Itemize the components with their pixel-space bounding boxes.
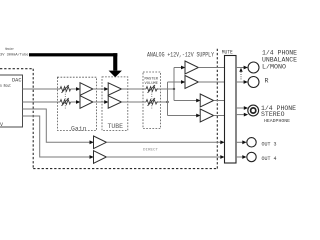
MUTE switch block [225, 56, 237, 164]
jack OUT 3 [247, 138, 256, 147]
op-amp out4 [196, 114, 200, 118]
svg-text:ANALOG +12V,-12V SUPPLY: ANALOG +12V,-12V SUPPLY [147, 51, 214, 58]
wire gain R to tube [93, 101, 105, 103]
op-amp out3 [196, 99, 200, 103]
resistor VCA R [60, 98, 71, 106]
wire buffer2 to mute [106, 156, 220, 158]
gang dotted line master volume [151, 92, 153, 109]
svg-text:R: R [265, 78, 269, 85]
op-amp gain L [76, 87, 80, 91]
svg-text:VOLUME: VOLUME [145, 82, 159, 86]
svg-text:1/4 PHONE: 1/4 PHONE [262, 50, 297, 57]
op-amp gain R [76, 100, 80, 104]
svg-text:Heater: Heater [5, 47, 14, 52]
jack OUT 4 [247, 152, 256, 161]
heater label text [0, 47, 29, 57]
wire master L to node [158, 88, 174, 90]
wire DAC direct R [23, 116, 90, 157]
wire amp3 to mute [214, 100, 225, 102]
svg-text:3V 300mA/Tube: 3V 300mA/Tube [0, 52, 29, 57]
Gain block dashed box [57, 77, 96, 130]
wire tube L to master volume [122, 88, 147, 90]
wire to amp3 [174, 100, 197, 102]
jack L/MONO [248, 62, 259, 73]
node L junction [173, 88, 175, 90]
mono link dotted arrow [240, 72, 242, 81]
wire amp4 to mute [214, 115, 225, 117]
wire mute to out4 [236, 156, 243, 158]
wire mute to L jack [236, 67, 244, 69]
potentiometer master R [146, 98, 158, 106]
op-amp direct buffer 2 [90, 155, 94, 159]
svg-text:TUBE: TUBE [108, 123, 124, 130]
wire amp2 to mute [198, 81, 224, 83]
out labels [262, 141, 277, 162]
svg-text:n Rout: n Rout [0, 83, 11, 89]
DAC U1 [0, 75, 23, 127]
gang dotted line gain [64, 92, 66, 109]
heater supply thick wire [29, 53, 122, 77]
wire to amp4 [168, 115, 197, 117]
headphone labels [261, 105, 296, 124]
svg-text:DIRECT: DIRECT [143, 149, 159, 153]
svg-text:STEREO: STEREO [261, 111, 285, 118]
wire [71, 88, 77, 90]
wire [71, 101, 77, 103]
wire DAC Lch out [23, 88, 61, 90]
MASTER VOLUME dashed box [143, 72, 161, 129]
wire mute to headphone lower [236, 114, 244, 116]
svg-text:V: V [0, 122, 3, 128]
enclosure dashed boundary top-left [0, 48, 217, 169]
jack headphone stereo [248, 105, 259, 116]
wire master R to node [158, 101, 168, 103]
potentiometer master L [146, 85, 158, 93]
wire L riser [173, 68, 175, 101]
svg-text:Gain: Gain [71, 126, 87, 133]
svg-text:UNBALANCE: UNBALANCE [262, 57, 297, 64]
svg-text:L/MONO: L/MONO [262, 64, 286, 71]
wire mute to out3 [236, 141, 243, 143]
svg-text:DAC: DAC [12, 77, 22, 83]
svg-text:HEADPHONE: HEADPHONE [264, 118, 290, 124]
wire to amp1 [174, 67, 182, 69]
wire DAC Rch out [23, 101, 61, 103]
wire gain L to tube [93, 88, 105, 90]
op-amp out1 [181, 66, 185, 70]
wire buffer1 to mute [106, 141, 220, 143]
wire DAC direct L [23, 109, 90, 142]
MASTER VOLUME label [145, 77, 159, 86]
svg-text:OUT 3: OUT 3 [262, 141, 277, 147]
TUBE block dashed box [102, 77, 128, 131]
svg-text:OUT 4: OUT 4 [262, 156, 277, 162]
jack labels unbalanced [262, 50, 297, 85]
wire amp1 to mute [198, 67, 224, 69]
resistor VCA L [60, 85, 71, 93]
op-amp tube L [104, 87, 108, 91]
svg-text:MASTER: MASTER [145, 77, 159, 81]
wire tube R to master volume [122, 101, 147, 103]
wire mute to R jack [236, 81, 244, 83]
node R junction [166, 101, 168, 103]
op-amp tube R [104, 100, 108, 104]
wire to amp2 [168, 81, 182, 83]
op-amp direct buffer 1 [90, 140, 94, 144]
wire R riser [167, 82, 169, 116]
wire mute to headphone upper [236, 107, 244, 109]
jack R [248, 77, 259, 88]
op-amp out2 [181, 80, 185, 84]
svg-text:MUTE: MUTE [222, 50, 233, 56]
